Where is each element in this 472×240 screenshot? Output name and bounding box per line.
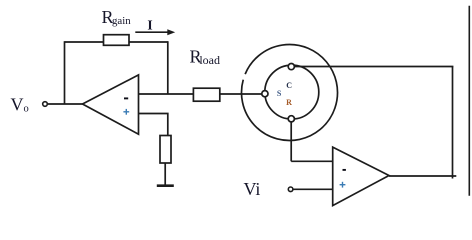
- wire: R2 to ground: [164, 163, 166, 185]
- wire: U2 output horizontal: [389, 175, 456, 177]
- terminal S (left of inner circle): [262, 91, 268, 97]
- U2 minus label: [343, 169, 346, 171]
- svg-text:I: I: [147, 17, 152, 32]
- svg-text:S: S: [277, 89, 282, 98]
- svg-text:R: R: [286, 98, 292, 107]
- svg-text:Vo: Vo: [11, 95, 29, 115]
- op-amp U2 (right, pointing right): [333, 147, 389, 206]
- wire: right vertical (feedback from U2 output): [452, 67, 454, 179]
- U1 minus label: [124, 97, 128, 99]
- wire: Vi terminal to U2 non-inverting input: [293, 188, 335, 190]
- wire: top terminal to right vertical: [294, 66, 453, 68]
- wire: R_load to sensor S terminal: [220, 93, 262, 95]
- resistor R_gain: [104, 35, 130, 46]
- svg-text:C: C: [286, 81, 292, 90]
- terminal C (top of inner circle): [288, 64, 294, 70]
- wire: U1 inverting input to R_load: [139, 93, 194, 95]
- terminal Vo: [43, 102, 48, 107]
- resistor R_load: [193, 88, 219, 101]
- current arrow I: [135, 29, 175, 35]
- resistor R2 (vertical, to ground): [160, 136, 171, 164]
- U1 plus label: [123, 109, 129, 115]
- border line (right edge): [468, 6, 470, 196]
- wire: feedback left vertical to output node: [64, 41, 66, 104]
- op-amp U1 (left, pointing left): [83, 75, 139, 134]
- wire: output to Vo terminal: [47, 103, 82, 105]
- wire: to U2 inverting input: [291, 160, 334, 162]
- terminal Vi: [288, 187, 293, 192]
- wire: feedback top horizontal (Rgain wire): [65, 41, 168, 43]
- wire: bottom terminal down: [290, 122, 292, 162]
- svg-text:Vi: Vi: [244, 179, 261, 199]
- svg-text:Rload: Rload: [190, 47, 220, 67]
- U2 plus label: [340, 182, 346, 188]
- wire: U1 non-inverting input to ground resistor: [139, 114, 168, 136]
- svg-text:Rgain: Rgain: [102, 7, 132, 27]
- wire: feedback right vertical down to inverting input: [167, 41, 169, 94]
- terminal R (bottom of inner circle): [288, 116, 294, 122]
- sensor outer circle (with small gap upper-left): [241, 44, 337, 140]
- ground: [157, 184, 174, 187]
- sensor inner circle: [265, 65, 319, 119]
